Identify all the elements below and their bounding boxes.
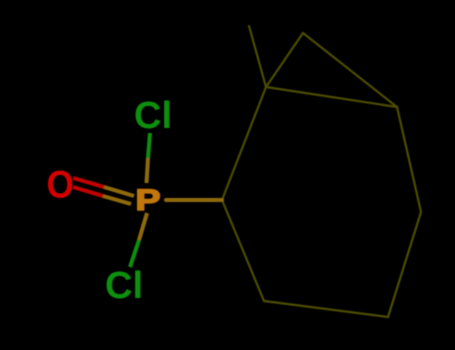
wire ring edge D-E [397,107,421,212]
ring bicyclic skeleton [222,26,421,317]
wire back chord B-D [266,87,397,107]
svg-text:O: O [47,162,74,206]
double bond O=P lower line: red then olive [73,187,103,196]
wire bridge edge C-D [303,33,397,107]
svg-text:Cl: Cl [134,95,172,137]
wire ring edge A-B [222,87,266,200]
svg-text:Cl: Cl [105,265,143,307]
wire ring edge F-G [264,301,388,317]
double bond O=P upper line: red then olive [73,178,104,187]
wire methyl stub M-B [249,26,266,87]
wire ring edge G-A [222,200,264,301]
bond P-Cl bottom: olive then green [139,213,147,240]
bond P-ring (orange) [166,198,222,202]
wire bridge edge B-C [266,33,303,87]
wire ring edge E-F [388,212,421,317]
svg-text:P: P [136,183,161,217]
bond P-Cl top: green then olive [148,133,150,158]
